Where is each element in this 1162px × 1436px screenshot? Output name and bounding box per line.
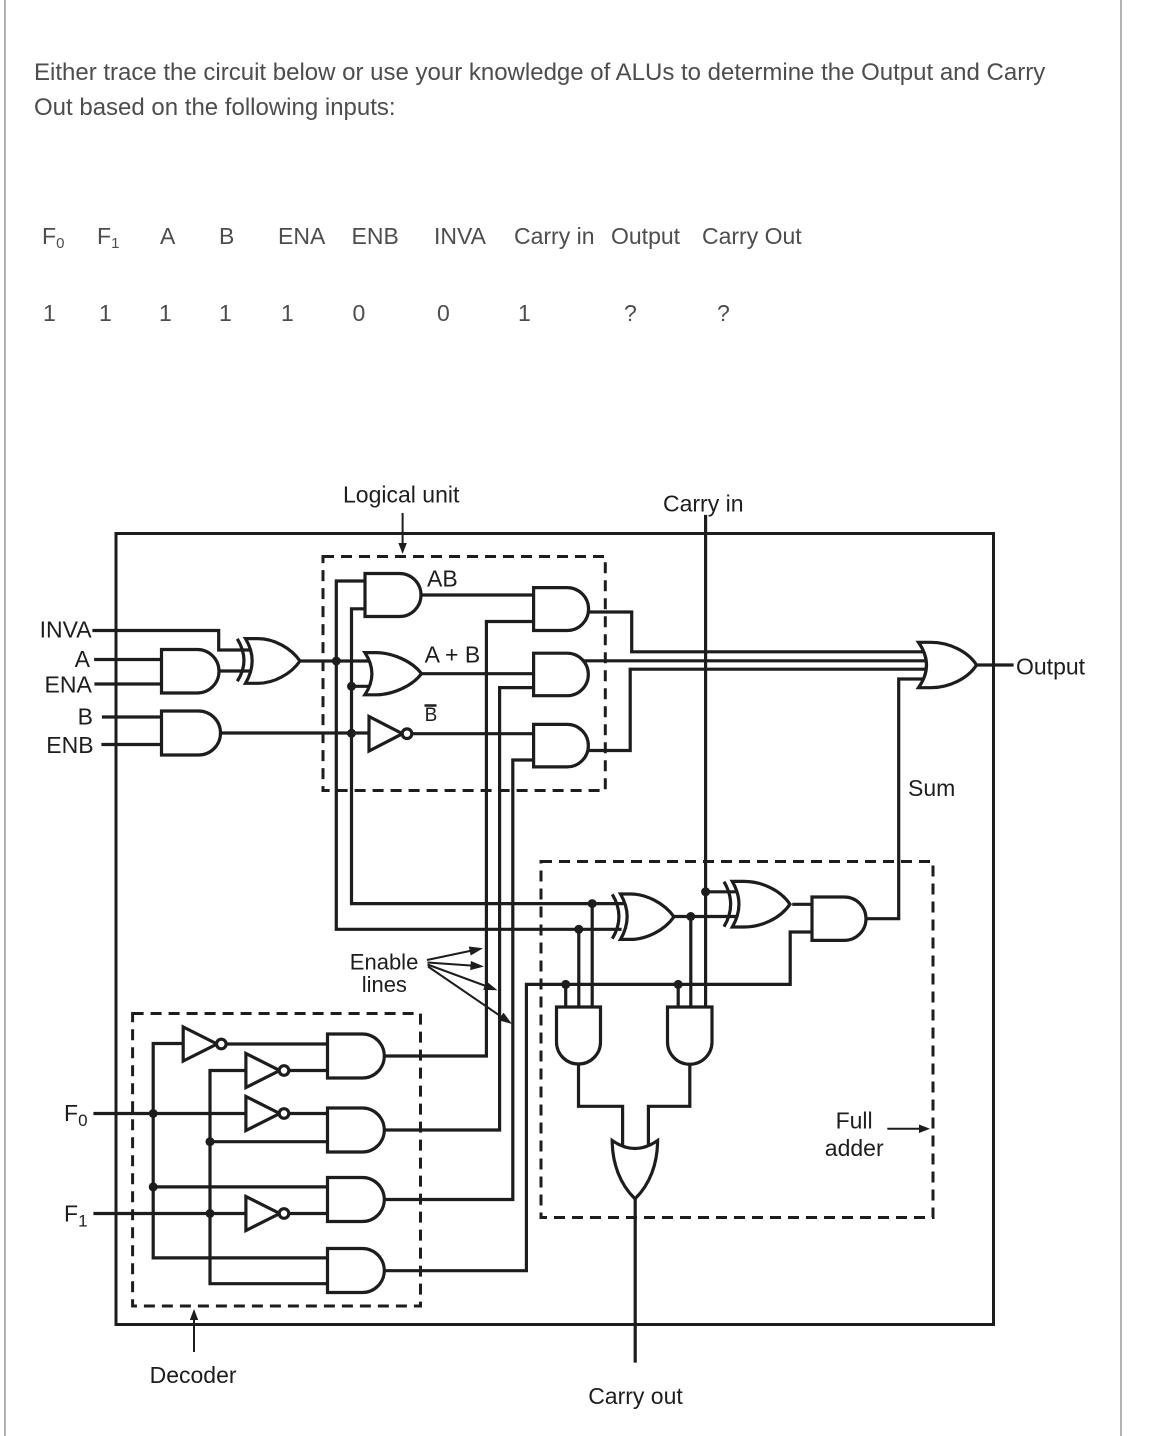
svg-text:B: B: [78, 704, 93, 730]
svg-text:Carry in: Carry in: [663, 491, 744, 517]
svg-text:ENB: ENB: [46, 732, 93, 758]
svg-text:AB: AB: [427, 566, 458, 592]
svg-text:F1: F1: [64, 1201, 88, 1231]
svg-text:Sum: Sum: [908, 775, 955, 801]
svg-text:Logical unit: Logical unit: [343, 482, 460, 508]
svg-text:adder: adder: [825, 1135, 884, 1161]
svg-text:B: B: [425, 705, 438, 726]
svg-text:Decoder: Decoder: [150, 1362, 237, 1388]
svg-text:A: A: [75, 646, 91, 672]
svg-text:F0: F0: [64, 1100, 88, 1130]
svg-text:Enable: Enable: [350, 950, 419, 975]
svg-text:A + B: A + B: [425, 642, 481, 668]
svg-text:lines: lines: [362, 972, 407, 997]
svg-text:Carry out: Carry out: [588, 1383, 683, 1409]
svg-text:Full: Full: [836, 1108, 873, 1134]
svg-text:Output: Output: [1016, 654, 1086, 680]
svg-text:INVA: INVA: [40, 617, 93, 643]
svg-text:ENA: ENA: [45, 672, 93, 698]
